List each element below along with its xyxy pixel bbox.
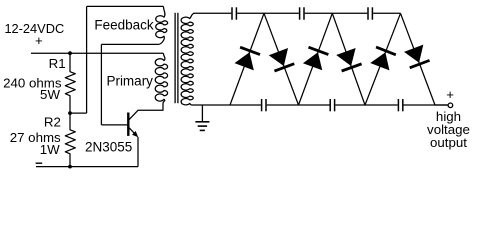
- svg-text:R1: R1: [49, 56, 66, 71]
- svg-text:output: output: [430, 135, 467, 150]
- svg-text:R2: R2: [44, 115, 61, 130]
- svg-text:Primary: Primary: [106, 74, 153, 89]
- svg-text:+: +: [35, 33, 43, 48]
- svg-text:1W: 1W: [40, 142, 60, 157]
- svg-text:5W: 5W: [40, 87, 60, 102]
- svg-text:2N3055: 2N3055: [85, 140, 132, 155]
- svg-text:+: +: [446, 87, 454, 102]
- svg-text:Feedback: Feedback: [94, 18, 154, 33]
